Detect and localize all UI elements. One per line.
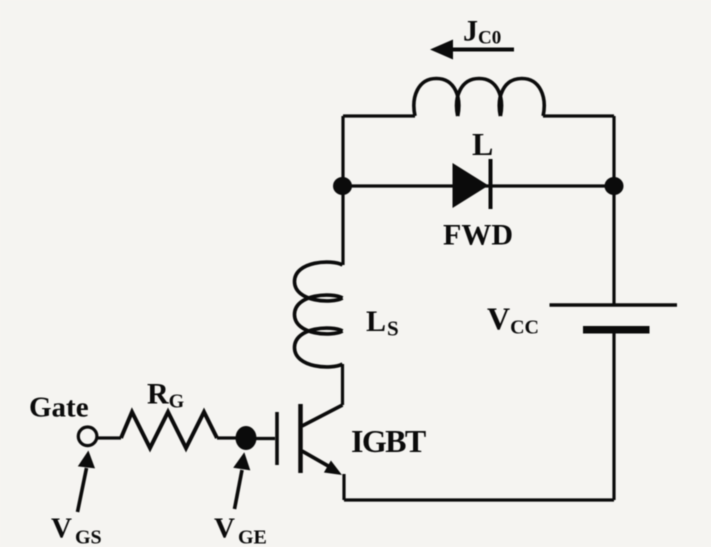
node gate dot	[236, 426, 257, 450]
wire gate dot to gate bar	[246, 437, 275, 440]
transistor IGBT emitter lead with arrow	[302, 451, 330, 467]
transistor IGBT gate bar	[275, 412, 279, 465]
wire top-right horizontal	[543, 114, 614, 117]
wire right vertical (top node to battery)	[612, 116, 615, 304]
svg-text:L: L	[472, 126, 493, 162]
inductor LS	[295, 262, 343, 367]
arrow JC0 current direction	[450, 48, 514, 52]
svg-text:FWD: FWD	[443, 219, 513, 252]
wire middle horizontal (diode row)	[343, 184, 614, 187]
battery VCC top plate	[550, 303, 678, 307]
wire emitter to bottom rail	[342, 474, 345, 500]
wire circle to resistor	[97, 436, 121, 439]
wire battery to bottom rail	[612, 333, 615, 500]
transistor IGBT collector lead	[302, 405, 343, 426]
wire bottom rail	[344, 498, 614, 501]
wire top-left horizontal	[343, 114, 415, 117]
diode FWD	[453, 163, 489, 208]
resistor RG zigzag	[121, 412, 217, 448]
inductor L (top)	[414, 79, 544, 117]
arrow VGE pointer	[235, 470, 243, 509]
svg-text:IGBT: IGBT	[351, 423, 426, 459]
gate terminal circle	[78, 427, 97, 446]
wire resistor to gate node	[217, 436, 246, 439]
node left junction	[333, 177, 352, 195]
node right junction	[605, 177, 624, 195]
battery VCC bottom plate	[583, 326, 650, 334]
transistor IGBT body bar	[298, 404, 303, 473]
wire left vertical (top node branch)	[341, 116, 344, 265]
svg-text:Gate: Gate	[29, 392, 89, 424]
wire LS to IGBT collector	[341, 364, 344, 405]
arrow VGS pointer	[78, 468, 87, 512]
